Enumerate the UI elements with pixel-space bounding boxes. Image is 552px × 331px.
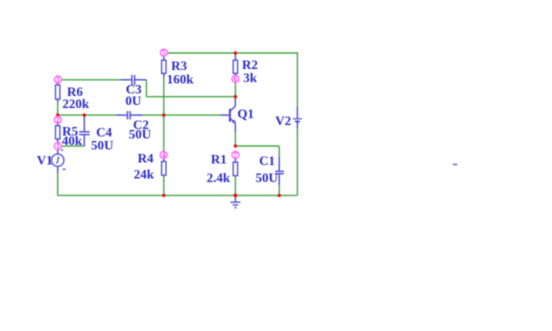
wire R2 top lead from top bus bbox=[234, 53, 236, 60]
wire C3 to collector junction bbox=[146, 96, 235, 98]
svg-text:24k: 24k bbox=[134, 167, 155, 182]
svg-text:7: 7 bbox=[234, 150, 238, 159]
node 6 bbox=[232, 75, 239, 84]
wire C3 corner down bbox=[145, 80, 147, 97]
svg-text:5: 5 bbox=[162, 48, 166, 57]
capacitor C3 bbox=[125, 75, 142, 108]
svg-text:3: 3 bbox=[56, 75, 60, 84]
resistor R5 bbox=[56, 124, 83, 149]
svg-text:6: 6 bbox=[234, 75, 238, 84]
svg-text:220k: 220k bbox=[62, 96, 90, 111]
capacitor C2 bbox=[127, 111, 151, 142]
svg-text:R1: R1 bbox=[211, 151, 227, 166]
node 2 bbox=[54, 115, 61, 124]
svg-text:V1: V1 bbox=[37, 152, 53, 167]
svg-text:3k: 3k bbox=[243, 70, 257, 85]
stray dash mark bbox=[453, 164, 457, 165]
wire R6 to node2 junction bbox=[57, 102, 59, 115]
junction top bus R2 bbox=[234, 51, 237, 54]
svg-text:50U: 50U bbox=[256, 170, 279, 185]
wire base lead blue bbox=[221, 114, 230, 116]
ground bbox=[230, 195, 240, 207]
svg-text:0U: 0U bbox=[125, 93, 141, 108]
wire V2 bottom lead bbox=[296, 122, 298, 129]
wire R5 bottom to node 1 bbox=[57, 139, 59, 143]
svg-text:160k: 160k bbox=[167, 71, 195, 86]
wire node 7 to R1 bbox=[234, 158, 236, 162]
wire V2 top lead bbox=[296, 107, 298, 118]
wire C3 left lead bbox=[121, 79, 132, 81]
wire node 4 to R4 lead bbox=[163, 158, 165, 161]
svg-text:C1: C1 bbox=[259, 153, 275, 168]
wire right rail lower (V2 to bottom bus) bbox=[296, 129, 298, 196]
wire R1 bottom to bottom bus bbox=[234, 176, 236, 196]
transistor Q1 bbox=[230, 106, 254, 123]
resistor R4 bbox=[134, 151, 166, 182]
svg-text:50U: 50U bbox=[129, 127, 152, 142]
capacitor C4 bbox=[79, 124, 114, 152]
junction collector C3 bbox=[234, 95, 237, 98]
node 3 bbox=[54, 75, 61, 84]
battery V2 bbox=[275, 113, 302, 128]
wire C4 top lead bbox=[83, 115, 85, 131]
wire R4 bottom to bottom bus bbox=[163, 175, 165, 195]
resistor R3 bbox=[162, 58, 195, 86]
svg-text:50U: 50U bbox=[91, 138, 114, 153]
svg-text:2: 2 bbox=[56, 115, 60, 124]
wire R3 bottom lead bbox=[163, 73, 165, 77]
junction node2 bus R6 bbox=[56, 113, 59, 116]
svg-text:Q1: Q1 bbox=[237, 106, 254, 121]
svg-text:R4: R4 bbox=[138, 151, 154, 166]
wire emitter to node 7 bbox=[234, 132, 236, 146]
svg-text:40k: 40k bbox=[62, 133, 83, 148]
wire top bus node5 to right rail bbox=[167, 52, 297, 54]
resistor R2 bbox=[233, 57, 258, 85]
node 7 bbox=[232, 150, 239, 159]
wire node2 bus to transistor base bbox=[143, 114, 221, 116]
wire C1 branch corner down bbox=[278, 146, 280, 156]
junction bottom bus R1 ground bbox=[234, 194, 238, 198]
junction node2 bus C4 bbox=[83, 113, 86, 116]
node 1 bbox=[54, 142, 61, 151]
capacitor C1 bbox=[256, 153, 284, 185]
junction bottom bus C1 bbox=[278, 194, 281, 197]
wire C4 bottom lead up bbox=[83, 135, 85, 146]
wire emitter lead bbox=[234, 122, 236, 132]
wire C1 top lead bbox=[278, 156, 280, 171]
wire C2 right lead bbox=[131, 114, 143, 116]
svg-text:V2: V2 bbox=[275, 113, 291, 128]
resistor R6 bbox=[56, 84, 90, 111]
wire node 1 to C4 bottom corner bbox=[61, 145, 84, 147]
wire bottom bus bbox=[58, 194, 298, 196]
wire R6 bottom lead bbox=[57, 99, 59, 102]
source V1 bbox=[37, 150, 66, 170]
svg-text:4: 4 bbox=[162, 151, 166, 160]
wire C1 bottom lead bbox=[278, 174, 280, 185]
svg-text:2.4k: 2.4k bbox=[207, 170, 231, 185]
junction emitter C1 branch bbox=[234, 144, 237, 147]
junction bottom bus R4 bbox=[162, 194, 165, 197]
node 4 bbox=[160, 151, 167, 160]
wire C3 right lead bbox=[135, 79, 147, 81]
wire R2 bottom lead to node 6 bbox=[234, 73, 236, 75]
svg-text:1: 1 bbox=[56, 142, 60, 151]
wire node 2 circle to R5 bbox=[57, 123, 59, 125]
wire emitter branch to C1 bbox=[235, 145, 279, 147]
wire node 6 to collector junction bbox=[234, 82, 236, 97]
wire collector lead bbox=[234, 97, 236, 107]
wire node 3 to C3 bbox=[61, 79, 120, 81]
wire node2 bus green left segment bbox=[58, 114, 116, 116]
wire R6 top lead from node 3 bbox=[57, 83, 59, 86]
wire right rail upper (top bus down to V2 plus lead) bbox=[296, 52, 298, 107]
wire C1 to bottom bus bbox=[278, 185, 280, 195]
wire C2 left lead bbox=[116, 114, 127, 116]
junction base bus R3R4 bbox=[162, 113, 165, 116]
wire V1 bottom lead bbox=[57, 166, 59, 173]
wire V1 to bottom bus bbox=[57, 173, 59, 196]
wire R3 to base bus and down to node 4 bbox=[163, 78, 165, 152]
node 5 bbox=[160, 48, 167, 57]
wire R3 top lead from node 5 bbox=[163, 56, 165, 60]
wire node 1 to V1 bbox=[57, 150, 59, 155]
resistor R1 bbox=[207, 151, 238, 185]
